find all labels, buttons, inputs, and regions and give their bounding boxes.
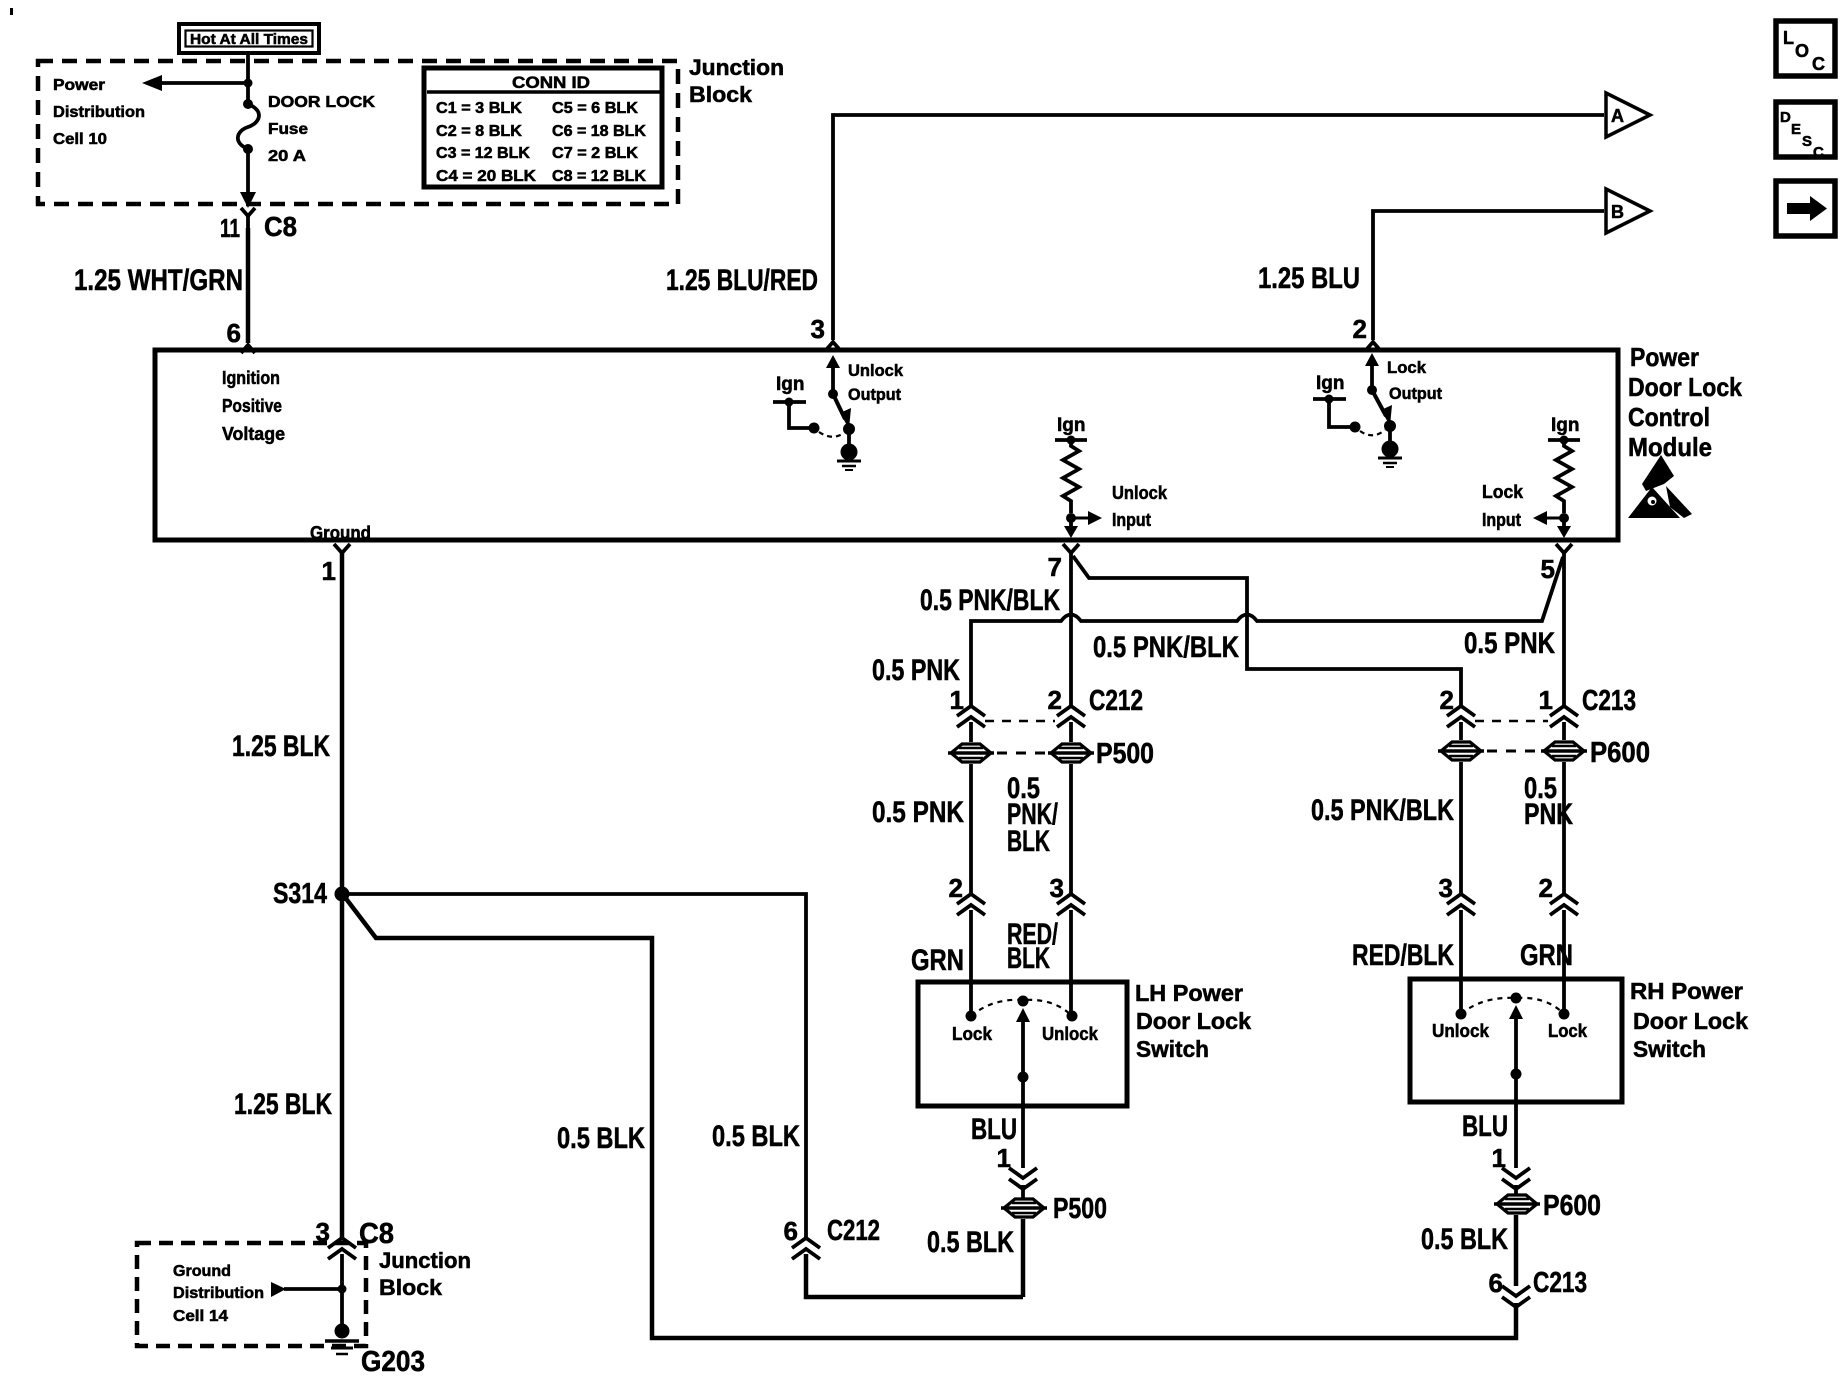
off-page connector A: [1606, 93, 1650, 137]
svg-text:C2 = 8 BLK: C2 = 8 BLK: [436, 123, 523, 140]
note: Power Distribution Cell 10: [53, 77, 145, 148]
svg-text:S: S: [1802, 133, 1812, 150]
off-page connector B: [1606, 189, 1650, 233]
wire: 0.5 PNK pin 5 to C212 pin 1 (hops over crossing wires): [872, 557, 1563, 706]
svg-text:P500: P500: [1096, 738, 1154, 770]
wire: 0.5 PNK/BLK to RH switch unlock terminal 3: [1311, 762, 1461, 894]
connector C212 terminal 1: [950, 685, 985, 742]
svg-text:Input: Input: [1482, 510, 1521, 530]
svg-text:C213: C213: [1582, 685, 1636, 717]
label: RH Power Door Lock Switch: [1630, 978, 1748, 1062]
svg-text:C212: C212: [1089, 685, 1143, 717]
connector C212 mating dashes: [985, 720, 1055, 723]
svg-text:BLU: BLU: [971, 1113, 1017, 1146]
label: DOOR LOCK Fuse 20 A: [268, 94, 376, 165]
svg-text:Unlock: Unlock: [1042, 1023, 1099, 1044]
wire: 0.5 PNK/BLK to LH switch unlock terminal 3: [1007, 764, 1071, 894]
svg-text:Module: Module: [1628, 432, 1712, 462]
pass-through grommet P600 (BLU/BLK wire): [1494, 1185, 1601, 1222]
svg-text:6: 6: [784, 1216, 798, 1246]
svg-text:C1 = 3 BLK: C1 = 3 BLK: [436, 100, 523, 117]
svg-text:P500: P500: [1053, 1193, 1107, 1225]
ground G203: [325, 1324, 425, 1376]
svg-text:C6 = 18 BLK: C6 = 18 BLK: [552, 123, 647, 140]
svg-text:C: C: [1812, 54, 1825, 74]
wire: BLU from RH switch common: [1462, 1074, 1516, 1168]
svg-text:Fuse: Fuse: [268, 121, 308, 138]
pass-through grommet P500 (right wire): [1048, 744, 1094, 762]
svg-text:S314: S314: [273, 878, 327, 910]
RH switch terminal 1 (to P600): [1492, 1143, 1530, 1189]
svg-text:L: L: [1783, 28, 1794, 48]
connector C213 terminal 6: [1489, 1267, 1587, 1307]
terminal 7 (module): [1048, 544, 1079, 582]
svg-text:Ign: Ign: [1316, 373, 1345, 394]
svg-text:G203: G203: [361, 1346, 425, 1376]
svg-text:Door Lock: Door Lock: [1136, 1008, 1251, 1034]
label: LH Power Door Lock Switch: [1135, 980, 1251, 1062]
label: Unlock Output: [848, 361, 904, 404]
RH switch contacts and throw: [1456, 993, 1570, 1080]
lock input arrow: [1533, 511, 1564, 525]
svg-text:Junction: Junction: [689, 55, 784, 80]
terminal 3 of C8: [316, 1217, 394, 1259]
svg-text:3: 3: [811, 314, 825, 344]
svg-text:C5 = 6 BLK: C5 = 6 BLK: [552, 100, 639, 117]
wire: 0.5 BLK from P600 to C213 terminal 6: [1421, 1215, 1516, 1286]
svg-text:2: 2: [949, 873, 963, 903]
dashed throw arc (unlock switch): [819, 432, 844, 437]
dashed throw arc (lock switch): [1360, 430, 1385, 435]
module: Power Door Lock Control Module: [155, 350, 1618, 540]
terminal 11 of C8: [220, 208, 297, 243]
svg-text:2: 2: [1353, 314, 1367, 344]
svg-text:O: O: [1795, 41, 1809, 61]
svg-text:DOOR LOCK: DOOR LOCK: [268, 94, 376, 111]
wire: branch to power distribution with arrow: [142, 75, 253, 91]
label box: Hot At All Times: [179, 24, 319, 53]
svg-text:Door Lock: Door Lock: [1628, 372, 1742, 402]
svg-text:D: D: [1780, 109, 1791, 126]
ign feed (lock switch): [1313, 373, 1361, 433]
svg-text:Switch: Switch: [1136, 1036, 1209, 1062]
label: Junction Block (top): [689, 55, 784, 107]
svg-text:GRN: GRN: [911, 944, 964, 977]
RH power door lock switch box: [1410, 979, 1622, 1102]
svg-text:Voltage: Voltage: [222, 423, 285, 444]
svg-text:Input: Input: [1112, 510, 1151, 530]
connector C212 terminal 2: [1048, 685, 1085, 742]
terminal 3 (module): [826, 342, 840, 350]
switch: lock output (inside module): [1365, 353, 1396, 432]
svg-text:0.5 PNK: 0.5 PNK: [1464, 627, 1555, 660]
pass-through grommet P600 (right wire): [1541, 742, 1587, 760]
connector C213 terminal 2: [1440, 685, 1475, 740]
svg-text:C: C: [1813, 144, 1824, 161]
junction block (bottom) dashed box: [137, 1243, 366, 1346]
RH switch terminal 2: [1539, 873, 1578, 1014]
svg-text:C4 = 20 BLK: C4 = 20 BLK: [436, 168, 537, 185]
svg-text:0.5 PNK: 0.5 PNK: [872, 654, 960, 687]
P600 dashes and label: [1487, 737, 1650, 769]
svg-text:Block: Block: [689, 82, 753, 107]
svg-text:B: B: [1611, 202, 1624, 222]
svg-text:C3 = 12 BLK: C3 = 12 BLK: [436, 145, 531, 162]
svg-text:Output: Output: [848, 385, 901, 404]
svg-text:RED/BLK: RED/BLK: [1352, 939, 1454, 972]
svg-text:11: 11: [220, 213, 240, 243]
ESD sensitivity symbol: [1628, 455, 1692, 518]
svg-text:Ground: Ground: [173, 1263, 231, 1280]
switch: unlock output (inside module): [826, 355, 855, 435]
label: Lock Input: [1482, 482, 1524, 530]
svg-text:1.25 WHT/GRN: 1.25 WHT/GRN: [74, 264, 243, 297]
svg-text:1.25 BLK: 1.25 BLK: [232, 730, 330, 763]
svg-text:Ign: Ign: [1057, 415, 1086, 436]
svg-text:20 A: 20 A: [268, 148, 306, 165]
svg-text:Ignition: Ignition: [222, 367, 280, 388]
connector C213 terminal 1: [1539, 685, 1578, 740]
label: Junction Block (bottom): [379, 1248, 471, 1300]
LH switch terminal 1 (to P500): [997, 1143, 1037, 1189]
wire: 1.25 WHT/GRN (fuse to module pin 6): [74, 228, 248, 343]
loc reference box: [1776, 21, 1835, 76]
wire: fuse output with down arrow at junction block edge: [240, 149, 256, 208]
svg-text:1.25 BLK: 1.25 BLK: [234, 1088, 332, 1121]
wire: C212 terminal 6 to LH P500 ground run: [806, 1254, 1023, 1297]
forward arrow box: [1776, 181, 1835, 236]
svg-text:Distribution: Distribution: [173, 1285, 264, 1302]
LH power door lock switch box: [918, 982, 1127, 1106]
label: Lock Output: [1387, 358, 1442, 403]
terminal 5 (module): [1541, 544, 1572, 584]
svg-text:Switch: Switch: [1633, 1036, 1706, 1062]
svg-text:Door Lock: Door Lock: [1633, 1008, 1748, 1034]
svg-text:Unlock: Unlock: [848, 361, 904, 380]
wire: RH ground run to splice S314: [344, 896, 1516, 1338]
ground (lock switch): [1378, 426, 1402, 467]
svg-text:0.5 BLK: 0.5 BLK: [1421, 1223, 1508, 1256]
wire: battery feed into fuse: [246, 52, 250, 103]
svg-text:Power: Power: [1630, 342, 1699, 372]
svg-text:0.5 BLK: 0.5 BLK: [557, 1122, 645, 1155]
wire: C8 terminal 3 to G203: [340, 1254, 344, 1331]
P500 dashes and label: [997, 738, 1154, 770]
connector C213 mating dashes: [1475, 720, 1548, 723]
svg-text:Unlock: Unlock: [1112, 483, 1168, 503]
fuse: DOOR LOCK 20 A: [238, 99, 259, 154]
svg-text:P600: P600: [1543, 1190, 1601, 1222]
svg-text:1: 1: [1539, 685, 1553, 715]
svg-text:Ign: Ign: [1551, 415, 1580, 436]
svg-text:RH Power: RH Power: [1630, 978, 1743, 1004]
wire: 0.5 PNK/BLK pin 7 down to C212 pin 2: [920, 553, 1071, 706]
LH switch contacts and throw: [966, 996, 1078, 1083]
svg-text:Distribution: Distribution: [53, 104, 145, 121]
ign feed (unlock switch): [773, 374, 820, 434]
junction block (top) dashed box: [38, 61, 678, 204]
svg-text:0.5 PNK: 0.5 PNK: [872, 796, 964, 829]
svg-text:GRN: GRN: [1520, 939, 1573, 972]
wire: 1.25 BLU (pin 2 to off-page B): [1258, 211, 1604, 344]
terminal 2 (module): [1366, 342, 1380, 350]
svg-text:2: 2: [1539, 873, 1553, 903]
svg-text:Ground: Ground: [310, 522, 371, 543]
svg-text:Ign: Ign: [776, 374, 805, 395]
svg-text:C212: C212: [827, 1215, 880, 1247]
svg-text:1: 1: [322, 556, 336, 586]
wire: 0.5 PNK to LH switch lock terminal 2: [872, 764, 971, 894]
wire: 1.25 BLK (pin 1 to S314): [232, 553, 342, 894]
wire: unlock input to pin 7 with exit arrow: [1064, 518, 1078, 538]
unlock input arrow: [1071, 511, 1102, 525]
terminal 1 (module ground pin): [322, 544, 350, 586]
svg-text:0.5 BLK: 0.5 BLK: [927, 1226, 1014, 1259]
connector id table CONN ID: [424, 68, 662, 187]
svg-text:0.5 BLK: 0.5 BLK: [712, 1120, 800, 1153]
svg-text:Unlock: Unlock: [1432, 1020, 1490, 1041]
svg-text:C7 = 2 BLK: C7 = 2 BLK: [552, 145, 639, 162]
wire: lock input to pin 5 with exit arrow: [1557, 518, 1571, 538]
pass-through grommet P500 (left wire): [948, 744, 994, 762]
svg-text:3: 3: [1439, 873, 1453, 903]
wire: 0.5 PNK to RH switch lock terminal 2: [1524, 762, 1573, 894]
svg-text:Control: Control: [1628, 402, 1710, 432]
svg-text:BLK: BLK: [1007, 825, 1050, 858]
svg-text:Positive: Positive: [222, 395, 282, 416]
label: RED/BLK (LH unlock wire): [1007, 918, 1058, 975]
resistor: unlock input (inside module): [1055, 415, 1087, 523]
svg-text:C213: C213: [1533, 1267, 1587, 1299]
terminal 6 (module): [227, 318, 255, 353]
svg-text:Junction: Junction: [379, 1248, 471, 1273]
wire: 0.5 BLK from P500 to C212 terminal 6: [927, 1219, 1023, 1297]
svg-text:Cell 14: Cell 14: [173, 1308, 228, 1325]
wire: 1.25 BLU/RED (pin 3 to off-page A): [666, 115, 1604, 344]
desc reference box: [1776, 102, 1835, 161]
LH switch terminal 3: [1050, 873, 1085, 1016]
svg-text:2: 2: [1048, 685, 1062, 715]
pass-through grommet P600 (left wire): [1438, 742, 1484, 760]
svg-text:7: 7: [1048, 552, 1062, 582]
svg-text:6: 6: [227, 318, 241, 348]
resistor: lock input (inside module): [1548, 415, 1580, 523]
label: Ignition Positive Voltage: [222, 367, 285, 444]
svg-text:Block: Block: [379, 1275, 443, 1300]
svg-text:E: E: [1791, 121, 1801, 138]
svg-text:6: 6: [1489, 1268, 1503, 1298]
svg-text:Lock: Lock: [952, 1023, 993, 1044]
labels: Unlock / Lock (RH switch): [1432, 1020, 1588, 1041]
svg-text:0.5 PNK/BLK: 0.5 PNK/BLK: [1311, 794, 1454, 827]
svg-text:Output: Output: [1389, 384, 1442, 403]
svg-text:Power: Power: [53, 77, 105, 94]
svg-text:1.25 BLU/RED: 1.25 BLU/RED: [666, 264, 818, 297]
svg-text:0.5 PNK/BLK: 0.5 PNK/BLK: [920, 584, 1060, 617]
RH switch terminal 3: [1439, 873, 1475, 1014]
svg-text:C8 = 12 BLK: C8 = 12 BLK: [552, 168, 647, 185]
splice S314: [273, 878, 350, 910]
svg-text:CONN ID: CONN ID: [512, 74, 590, 92]
wire: 1.25 BLK (S314 to C8 terminal 3): [234, 894, 342, 1238]
label: Unlock Input: [1112, 483, 1168, 530]
arrow: ground distribution feed: [271, 1282, 347, 1297]
svg-text:Hot At All Times: Hot At All Times: [190, 31, 308, 48]
corner tick (scan artifact): [10, 8, 13, 15]
svg-text:Lock: Lock: [1548, 1020, 1588, 1041]
svg-text:1.25 BLU: 1.25 BLU: [1258, 262, 1360, 295]
svg-text:5: 5: [1541, 554, 1555, 584]
svg-text:Cell 10: Cell 10: [53, 131, 107, 148]
svg-text:LH Power: LH Power: [1135, 980, 1243, 1006]
wire: 0.5 PNK/BLK pin 7 branch to C213 pin 2: [1073, 556, 1461, 706]
note: Ground Distribution Cell 14: [173, 1263, 264, 1325]
svg-text:0.5 PNK/BLK: 0.5 PNK/BLK: [1093, 631, 1239, 664]
ground (unlock switch): [837, 429, 861, 470]
svg-text:BLU: BLU: [1462, 1110, 1508, 1143]
labels: Lock / Unlock (LH switch): [952, 1023, 1099, 1044]
pass-through grommet P500 (BLU/BLK wire): [1001, 1185, 1107, 1225]
connector C212 terminal 6: [784, 1215, 880, 1259]
svg-text:Lock: Lock: [1482, 482, 1524, 502]
svg-text:BLK: BLK: [1007, 942, 1050, 975]
wire: 0.5 PNK pin 5 down to C213 pin 1: [1562, 553, 1566, 706]
label: module name: [1628, 342, 1742, 462]
wire: BLU from LH switch common: [971, 1077, 1023, 1168]
svg-text:A: A: [1611, 106, 1624, 126]
svg-text:P600: P600: [1590, 737, 1650, 769]
svg-text:Lock: Lock: [1387, 358, 1427, 377]
svg-text:PNK: PNK: [1524, 798, 1573, 831]
svg-text:C8: C8: [264, 211, 297, 242]
wire: 0.5 BLK S314 to C212 terminal 6: [342, 894, 806, 1238]
LH switch terminal 2: [949, 873, 985, 1016]
